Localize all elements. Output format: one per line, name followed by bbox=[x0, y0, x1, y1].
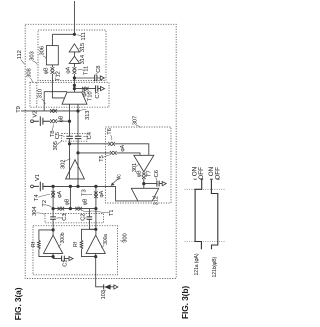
node T9 junction bbox=[76, 109, 79, 112]
capacitor C7 bbox=[96, 85, 98, 91]
feedback resistor Rf of 300a bbox=[82, 229, 96, 256]
capacitor C4 bbox=[75, 136, 82, 138]
wire 300b input bbox=[52, 253, 54, 258]
node T5 junction bbox=[76, 151, 79, 154]
svg-text:C3: C3 bbox=[62, 213, 68, 220]
amp 310 left input wire bbox=[69, 104, 71, 136]
svg-text:121a (φA): 121a (φA) bbox=[194, 253, 200, 275]
wire 301 output to T7 bbox=[143, 171, 145, 174]
wire 315 to 314 bbox=[73, 52, 75, 56]
wire T6 row bbox=[70, 144, 149, 156]
svg-text:T2: T2 bbox=[42, 200, 48, 207]
svg-text:C6: C6 bbox=[154, 170, 160, 177]
ground arrow after C1 bbox=[69, 257, 73, 261]
node 300a output bbox=[94, 228, 97, 231]
switch T8 bbox=[50, 119, 57, 123]
waveform 121b phiB bbox=[211, 179, 217, 249]
svg-text:310: 310 bbox=[38, 89, 44, 98]
wire T3 column bbox=[95, 186, 97, 208]
svg-text:Vc: Vc bbox=[117, 174, 123, 180]
feedback resistor Rf of 300b bbox=[39, 230, 53, 257]
capacitor C8 bbox=[95, 75, 97, 81]
terminal arrow after photodiode bbox=[114, 285, 118, 289]
capacitor C3 bbox=[50, 217, 56, 219]
svg-text:φB: φB bbox=[43, 67, 49, 74]
svg-text:V2: V2 bbox=[33, 111, 39, 118]
dashed box 307 bbox=[106, 127, 172, 203]
capacitor C1 bbox=[62, 256, 65, 262]
svg-text:φA: φA bbox=[99, 190, 105, 197]
svg-text:C7: C7 bbox=[95, 91, 101, 98]
inverter 314 bbox=[69, 56, 79, 63]
node junction row T3 bbox=[94, 185, 97, 188]
svg-text:T12: T12 bbox=[56, 71, 62, 81]
svg-text:φA: φA bbox=[65, 66, 71, 73]
switch T4 bbox=[51, 191, 55, 198]
switch T2 bbox=[58, 207, 65, 211]
svg-text:T11: T11 bbox=[84, 66, 90, 75]
switch T6 bbox=[108, 142, 115, 146]
wire T7 to 312 bbox=[143, 179, 145, 188]
photodiode 103 bbox=[103, 284, 105, 289]
node 300b output bbox=[52, 228, 55, 231]
wire T4 column bbox=[52, 186, 54, 216]
node junction sw row mid bbox=[69, 207, 72, 210]
wire T11 to amp 310 output node bbox=[73, 74, 75, 92]
wire T5 row bbox=[78, 153, 140, 155]
node junction sw row left bbox=[52, 207, 55, 210]
node row wire V1 bbox=[43, 185, 116, 187]
svg-text:T4: T4 bbox=[34, 194, 40, 201]
node junction row mid bbox=[69, 185, 72, 188]
svg-text:φB: φB bbox=[136, 170, 142, 177]
level ticks bbox=[194, 178, 220, 180]
node junction sw row right bbox=[94, 207, 97, 210]
ground arrow after C7 bbox=[101, 87, 105, 91]
capacitor C6 bbox=[157, 181, 159, 187]
svg-text:φB: φB bbox=[65, 198, 71, 205]
wire 300a input to photodiode bbox=[96, 253, 104, 286]
wire 312 output to node row bbox=[116, 186, 139, 201]
capacitor C5 bbox=[66, 136, 73, 138]
svg-text:303: 303 bbox=[30, 51, 36, 60]
svg-text:304: 304 bbox=[32, 206, 38, 216]
wire 300a output up bbox=[95, 209, 97, 236]
wire 314 to T11 bbox=[73, 63, 75, 67]
svg-text:Rf: Rf bbox=[31, 241, 37, 247]
voltage source V1 bbox=[31, 185, 34, 188]
dashed box 300 bbox=[33, 226, 118, 275]
wire node to T10 and C7 bbox=[74, 88, 100, 90]
dashed box 308 bbox=[30, 82, 109, 107]
amplifier 301 inverted triangle bbox=[134, 155, 154, 172]
amplifier 300b bbox=[44, 235, 63, 253]
node T6 junction bbox=[68, 142, 71, 145]
switch T10 bbox=[82, 87, 89, 91]
svg-text:300a: 300a bbox=[103, 234, 109, 245]
svg-text:T6: T6 bbox=[107, 128, 113, 135]
control voltage Vc arrow bbox=[113, 177, 120, 183]
svg-text:T1: T1 bbox=[109, 210, 115, 217]
svg-text:111: 111 bbox=[81, 32, 87, 41]
switch T7 bbox=[142, 173, 146, 180]
node junction row right input bbox=[76, 185, 79, 188]
svg-text:121b(φB): 121b(φB) bbox=[212, 256, 218, 277]
node 300a input bbox=[94, 255, 97, 258]
svg-text:315: 315 bbox=[80, 43, 86, 52]
feedback wire around 310 bbox=[44, 92, 67, 111]
capacitor C2 bbox=[87, 217, 93, 219]
svg-text:OFF: OFF bbox=[215, 167, 222, 180]
dashed box 304 around C2 C3 bbox=[45, 214, 104, 223]
ground arrow after C6 bbox=[162, 182, 166, 186]
wire 306 to node bbox=[51, 34, 53, 45]
wire to capacitor C6 bbox=[144, 183, 162, 185]
ground arrow after C8 bbox=[100, 76, 104, 80]
right column C4 to node row bbox=[77, 139, 79, 187]
output node wire to terminal 111 bbox=[52, 1, 74, 34]
svg-text:FIG. 3(a): FIG. 3(a) bbox=[13, 287, 23, 320]
svg-text:C2: C2 bbox=[81, 214, 87, 221]
amplifier 300a bbox=[86, 235, 105, 253]
node C6 junction bbox=[142, 182, 145, 185]
block 306 bbox=[46, 46, 58, 65]
timing dotted guide line lower bbox=[185, 240, 226, 242]
inner dashed divider of box 308 bbox=[36, 82, 38, 107]
dashed box 303 bbox=[38, 30, 106, 81]
svg-text:313: 313 bbox=[85, 111, 91, 120]
svg-text:T3: T3 bbox=[82, 189, 88, 196]
amp 310 right input wire node 313 bbox=[77, 104, 79, 136]
svg-text:300b: 300b bbox=[60, 232, 66, 243]
svg-text:φA: φA bbox=[120, 144, 126, 151]
amplifier 302 bbox=[66, 160, 85, 179]
node 111 junction bbox=[73, 33, 76, 36]
svg-text:C8: C8 bbox=[96, 66, 102, 73]
svg-text:103: 103 bbox=[101, 290, 107, 299]
svg-text:Rf: Rf bbox=[73, 241, 79, 247]
svg-text:112: 112 bbox=[17, 50, 23, 59]
svg-text:308: 308 bbox=[27, 68, 33, 77]
svg-text:φA: φA bbox=[57, 191, 63, 198]
node C7 junction bbox=[73, 87, 76, 90]
svg-text:FIG. 3(b): FIG. 3(b) bbox=[180, 286, 190, 319]
switch T1 bbox=[75, 207, 82, 211]
waveform 121a phiA bbox=[195, 179, 202, 249]
voltage source V2 bbox=[31, 120, 34, 123]
svg-text:T7: T7 bbox=[147, 170, 153, 177]
wire T8 to left column bbox=[57, 120, 70, 122]
wire 306 to T12 bbox=[51, 65, 53, 67]
node 300b input bbox=[52, 255, 55, 258]
switch T11 bbox=[73, 67, 77, 74]
wire to capacitor C1 bbox=[53, 258, 69, 260]
svg-text:T5: T5 bbox=[99, 155, 105, 162]
svg-text:300: 300 bbox=[123, 233, 129, 242]
svg-text:V1: V1 bbox=[35, 174, 41, 181]
svg-text:OFF: OFF bbox=[198, 167, 205, 180]
svg-text:C4: C4 bbox=[87, 131, 93, 139]
outer dashed box 112 (optical receiver IC) bbox=[25, 24, 176, 278]
switch T3 bbox=[94, 191, 98, 198]
left column C5 to amp 302 bbox=[69, 139, 71, 179]
switch T9 bbox=[50, 109, 57, 113]
wire mid column bbox=[69, 186, 71, 208]
svg-text:307: 307 bbox=[132, 116, 138, 125]
node junction row left bbox=[52, 185, 55, 188]
svg-text:306: 306 bbox=[40, 46, 46, 55]
amplifier 312 trapezoid bbox=[131, 188, 158, 201]
node C8 junction bbox=[73, 76, 76, 79]
wire T2 T1 row bbox=[53, 208, 96, 210]
wire T12 to amp 310 input bbox=[52, 74, 64, 98]
inverter 315 bbox=[69, 44, 79, 52]
capacitor C2 drop wire bbox=[89, 209, 96, 230]
amplifier 310 trapezoid bbox=[62, 92, 87, 104]
switch T5 bbox=[110, 151, 117, 155]
node T8 junction bbox=[68, 120, 71, 123]
switch T12 bbox=[51, 67, 55, 74]
wire C3 down bbox=[52, 220, 54, 236]
svg-text:305: 305 bbox=[53, 141, 59, 150]
timing dotted guide line upper bbox=[185, 188, 226, 190]
input wire row T9 bbox=[21, 110, 78, 112]
svg-text:T9: T9 bbox=[16, 106, 22, 113]
svg-text:φB: φB bbox=[83, 198, 89, 205]
svg-text:314: 314 bbox=[80, 54, 86, 64]
dashed box 305 around C4 C5 bbox=[62, 134, 88, 142]
wire to capacitor C8 bbox=[74, 77, 100, 79]
node junction above 310 bbox=[73, 84, 76, 87]
